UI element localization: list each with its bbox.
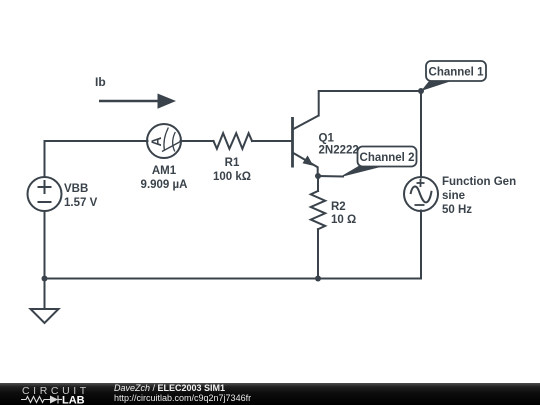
wire ammeter to R1: [181, 140, 214, 142]
wire collector to top rail: [319, 91, 421, 116]
wire emitter node to R2: [317, 176, 319, 191]
svg-text:VBB: VBB: [64, 183, 88, 195]
svg-text:Q1: Q1: [319, 133, 335, 145]
node R2 bottom rail: [315, 276, 321, 282]
svg-text:AM1: AM1: [152, 165, 177, 177]
wire channel1 node down to function gen: [420, 91, 422, 178]
node ground rail: [42, 276, 48, 282]
ammeter AM1: [147, 124, 181, 158]
svg-text:sine: sine: [442, 190, 465, 202]
node channel1: [418, 88, 424, 94]
resistor R1: [214, 133, 253, 149]
node emitter: [315, 173, 321, 179]
wire R1 to Q1 base: [252, 140, 292, 142]
wire VBB bottom to ground node: [44, 211, 46, 279]
callout Channel 2: [339, 147, 417, 178]
footer url line: [114, 393, 251, 403]
svg-text:2N2222: 2N2222: [319, 145, 359, 157]
svg-text:9.909 µA: 9.909 µA: [141, 179, 188, 191]
svg-text:Function Gen: Function Gen: [442, 176, 516, 188]
transistor Q1 emitter arrowhead: [303, 155, 314, 165]
wire function gen to bottom rail: [420, 211, 422, 279]
svg-text:R1: R1: [225, 157, 240, 169]
function generator V1: [404, 177, 438, 211]
svg-text:Ib: Ib: [95, 75, 106, 89]
transistor Q1: [293, 116, 319, 177]
wire emitter node to channel2 pointer: [318, 175, 343, 178]
svg-text:50 Hz: 50 Hz: [442, 204, 472, 216]
svg-text:LAB: LAB: [62, 395, 85, 405]
footer bar: [0, 383, 540, 405]
ground: [31, 279, 59, 324]
svg-text:R2: R2: [331, 201, 346, 213]
CircuitLab logo: [0, 383, 100, 405]
svg-text:1.57 V: 1.57 V: [64, 197, 98, 209]
current label Ib arrow: [95, 75, 176, 109]
svg-text:Channel 2: Channel 2: [360, 152, 415, 164]
resistor R2: [311, 191, 325, 229]
footer credit line: [114, 383, 225, 393]
svg-text:A: A: [149, 136, 164, 146]
callout Channel 1: [421, 61, 486, 91]
svg-text:100 kΩ: 100 kΩ: [213, 171, 251, 183]
wire bottom rail: [45, 278, 422, 280]
wire R2 to bottom rail: [317, 229, 319, 278]
voltage source VBB: [28, 177, 62, 211]
svg-text:10 Ω: 10 Ω: [331, 214, 356, 226]
wire VBB top to ammeter: [45, 141, 148, 177]
svg-text:Channel 1: Channel 1: [429, 67, 485, 79]
